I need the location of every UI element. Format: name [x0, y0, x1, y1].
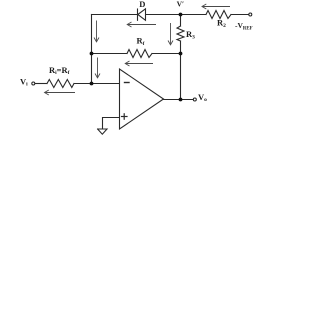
node output junction dot	[179, 98, 183, 102]
current arrow down left-wire lower	[97, 58, 99, 78]
svg-text:R3: R3	[186, 29, 195, 40]
wire Vi terminal to Ri	[36, 83, 48, 85]
resistor R3	[177, 26, 184, 41]
wire R2 to -VREF terminal	[231, 14, 249, 16]
current arrow left under Ri	[45, 92, 75, 94]
node R3-bottom junction dot	[179, 52, 183, 56]
wire Ri to inverting input	[74, 83, 120, 85]
wire noninverting input to ground	[103, 118, 120, 130]
op-amp minus sign	[125, 82, 130, 84]
current arrow left above R2	[202, 6, 230, 8]
wire R3 to output node	[180, 41, 182, 100]
current arrow left under diode	[128, 24, 157, 26]
wire Rf row left	[92, 53, 128, 55]
diode D	[137, 9, 139, 20]
resistor Rf	[127, 50, 152, 58]
svg-text:Ri=Rf: Ri=Rf	[49, 65, 70, 76]
node Rf-left junction dot	[90, 52, 94, 56]
svg-text:R2: R2	[217, 18, 226, 29]
current arrow left under Rf	[126, 63, 154, 65]
svg-text:-VREF: -VREF	[235, 21, 253, 31]
node inverting-input junction dot	[90, 82, 94, 86]
svg-text:Vo: Vo	[198, 92, 207, 103]
wire left vertical	[91, 15, 93, 84]
wire output	[164, 99, 194, 101]
op-amp U1	[120, 69, 164, 129]
current arrow down left-wire upper	[96, 21, 98, 42]
wire Rf row right	[152, 53, 181, 55]
terminal Vi	[32, 82, 35, 85]
svg-text:Vi: Vi	[20, 76, 28, 87]
wire top horizontal left of diode	[92, 14, 138, 16]
svg-text:V′: V′	[177, 0, 185, 9]
resistor R2	[206, 11, 231, 19]
terminal -VREF	[249, 13, 252, 16]
svg-text:Rf: Rf	[137, 36, 145, 47]
ground	[98, 129, 107, 134]
svg-text:D: D	[139, 0, 145, 9]
wire right vertical V' to R3	[180, 15, 182, 27]
resistor Ri	[47, 80, 74, 88]
wire top horizontal right of diode to R2	[146, 14, 206, 16]
terminal Vo	[193, 98, 196, 101]
current arrow down beside R3	[170, 23, 172, 45]
op-amp plus sign	[122, 114, 128, 119]
node V' junction dot	[179, 13, 183, 17]
